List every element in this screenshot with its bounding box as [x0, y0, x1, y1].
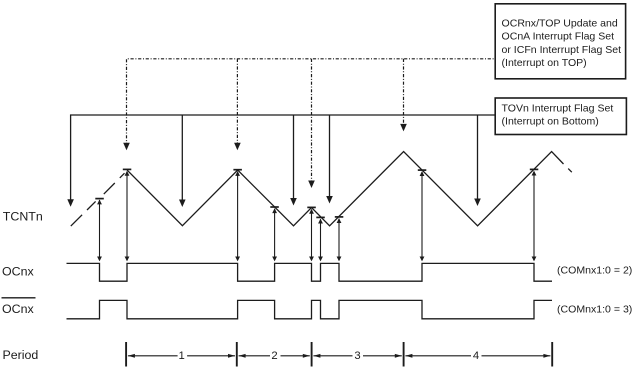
svg-text:2: 2: [271, 350, 277, 362]
svg-text:OCnx: OCnx: [2, 265, 34, 279]
svg-text:4: 4: [473, 350, 479, 362]
svg-text:1: 1: [179, 350, 185, 362]
svg-text:or ICFn Interrupt Flag Set: or ICFn Interrupt Flag Set: [502, 44, 622, 56]
svg-text:(COMnx1:0 = 2): (COMnx1:0 = 2): [557, 265, 632, 277]
svg-text:(Interrupt on TOP): (Interrupt on TOP): [502, 57, 587, 69]
svg-text:(Interrupt on Bottom): (Interrupt on Bottom): [502, 116, 599, 128]
svg-text:TOVn Interrupt Flag Set: TOVn Interrupt Flag Set: [502, 102, 614, 114]
svg-text:(COMnx1:0 = 3): (COMnx1:0 = 3): [557, 304, 632, 316]
svg-text:3: 3: [354, 350, 360, 362]
svg-text:OCnA Interrupt Flag Set: OCnA Interrupt Flag Set: [502, 31, 615, 43]
svg-text:OCRnx/TOP Update and: OCRnx/TOP Update and: [502, 17, 618, 29]
svg-text:OCnx: OCnx: [2, 302, 34, 316]
svg-text:Period: Period: [3, 348, 39, 362]
svg-text:TCNTn: TCNTn: [3, 210, 43, 224]
